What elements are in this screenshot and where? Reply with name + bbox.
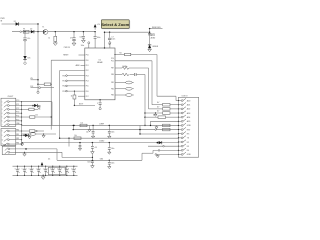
feed wire J2 row4 — [144, 112, 145, 113]
svg-text:PC1: PC1 — [111, 61, 114, 63]
resistor R1 drop — [55, 31, 56, 32]
svg-text:AD3: AD3 — [187, 112, 191, 115]
svg-text:1: 1 — [2, 101, 3, 103]
svg-text:C1: C1 — [36, 168, 38, 170]
capacitor C1 chain — [24, 31, 25, 32]
svg-text:1n: 1n — [68, 168, 70, 170]
svg-text:10: 10 — [2, 139, 4, 141]
svg-text:1n: 1n — [47, 168, 49, 170]
svg-text:PD0: PD0 — [62, 75, 65, 77]
ground below C2 — [72, 43, 76, 46]
terminal diamond GND1 — [24, 62, 27, 65]
LED5 row J1b second — [23, 135, 25, 137]
svg-text:1n: 1n — [61, 168, 63, 170]
connector J1 box lower — [1, 129, 16, 146]
connector J1 pin 2 — [4, 104, 8, 107]
open pin end of left vertical — [37, 91, 39, 93]
svg-text:1n: 1n — [32, 172, 34, 174]
ferrite on rail C — [30, 133, 36, 136]
svg-text:GND: GND — [187, 154, 192, 156]
svg-text:4k7: 4k7 — [157, 106, 159, 108]
ground below bottom pin row — [157, 154, 159, 155]
capacitor C23 decoupling — [38, 166, 39, 167]
svg-text:PC3: PC3 — [16, 112, 19, 114]
svg-text:PD6: PD6 — [86, 91, 89, 93]
svg-text:1n: 1n — [40, 168, 42, 170]
wire step down x62 — [61, 152, 63, 157]
connector J2 pin 11 — [178, 141, 181, 143]
svg-text:T1: T1 — [42, 27, 44, 29]
capacitor C21 decoupling — [24, 166, 25, 167]
svg-text:100n: 100n — [81, 45, 85, 47]
resistor rail B right — [163, 128, 171, 131]
svg-text:PC2: PC2 — [16, 108, 19, 110]
svg-text:PD3: PD3 — [62, 91, 65, 93]
wire led chain vertical — [149, 29, 151, 45]
wire long left vertical — [37, 32, 39, 91]
resistor R7 row — [22, 108, 29, 110]
connector J2 pin 7 — [178, 124, 181, 126]
connector J2 pin 4 — [178, 112, 181, 114]
capacitor C24 decoupling — [45, 166, 46, 167]
svg-text:1n: 1n — [75, 172, 77, 174]
connector J2 pin 2 — [178, 104, 181, 106]
svg-text:PD2: PD2 — [86, 70, 89, 72]
svg-text:10n: 10n — [86, 132, 89, 134]
connector J1b pin 1 — [4, 130, 8, 133]
capacitor C20 decoupling — [17, 166, 18, 167]
svg-text:10k: 10k — [81, 123, 84, 125]
resistor J2 row5 — [158, 116, 166, 119]
wire main 5V bus — [12, 31, 95, 33]
chain x92.4 below rail E — [92, 142, 93, 143]
svg-text:1n: 1n — [25, 172, 27, 174]
svg-text:1n: 1n — [54, 172, 56, 174]
svg-text:100n: 100n — [111, 132, 115, 134]
svg-text:D2: D2 — [187, 142, 189, 144]
svg-text:RESET: RESET — [63, 55, 68, 57]
svg-text:100n: 100n — [111, 39, 115, 41]
wire rail A from J1 — [22, 124, 179, 126]
svg-text:1n: 1n — [18, 168, 20, 170]
connector box3 pin 1 — [5, 148, 8, 151]
svg-text:PD3: PD3 — [86, 75, 89, 77]
svg-text:1k: 1k — [48, 38, 50, 40]
wire rail D — [60, 137, 179, 139]
connector box3 serial — [2, 146, 15, 154]
connector J2 pin 1 — [178, 100, 181, 102]
wire feed vertical x51.2 — [50, 60, 52, 129]
connector box3 pin 2 — [5, 151, 8, 154]
wire staircase to J2 — [141, 153, 143, 160]
resistor R4 — [115, 54, 125, 56]
svg-text:10k: 10k — [74, 135, 77, 137]
connector J1b pin 4 — [4, 143, 8, 146]
fuse F1 — [23, 30, 29, 33]
capacitor C9 inline — [134, 73, 136, 76]
pin row J2 bottom with circle — [155, 154, 157, 156]
wire feed vertical x157 — [156, 55, 158, 97]
svg-text:CN EXT: CN EXT — [8, 96, 14, 98]
svg-text:PB3: PB3 — [111, 95, 114, 97]
svg-text:RX: RX — [187, 134, 190, 136]
feed wire J2 row3 — [149, 108, 163, 110]
wire step down x57 — [56, 149, 58, 160]
ground stub rail A right — [156, 125, 158, 126]
capacitor C28 decoupling — [73, 166, 74, 167]
connector J1 box upper — [1, 98, 16, 126]
connector J2 pin 10 — [178, 137, 181, 139]
svg-text:10n: 10n — [80, 37, 83, 39]
svg-text:PC4: PC4 — [16, 116, 19, 118]
capacitor C3 drop — [83, 31, 84, 32]
svg-text:2: 2 — [2, 105, 3, 107]
svg-text:C1: C1 — [43, 168, 45, 170]
cap group2 box — [49, 167, 66, 175]
svg-text:10k: 10k — [35, 115, 38, 117]
svg-text:RESET-EN: RESET-EN — [152, 27, 161, 29]
LED1 green — [148, 45, 151, 48]
connector J2 pin 8 — [178, 129, 181, 131]
svg-text:CON IO: CON IO — [182, 95, 189, 97]
svg-text:D1: D1 — [14, 21, 16, 23]
wire row1 extension to corner — [22, 101, 53, 103]
svg-text:8: 8 — [2, 131, 3, 133]
wire rail G bottom — [57, 159, 142, 161]
svg-text:PC6: PC6 — [86, 55, 89, 57]
svg-text:100n: 100n — [111, 148, 115, 150]
svg-text:100n: 100n — [97, 37, 101, 39]
wire rail C stepped — [22, 133, 57, 135]
svg-text:Select & Zoom: Select & Zoom — [101, 22, 129, 27]
svg-text:X: X — [97, 103, 98, 105]
wire J2 row5 with resistor — [144, 116, 145, 117]
svg-text:7: 7 — [2, 124, 3, 126]
connector J2 pin 5 — [178, 116, 181, 118]
svg-text:AD2: AD2 — [187, 108, 191, 111]
svg-text:TX: TX — [187, 138, 190, 140]
svg-text:PD2: PD2 — [62, 86, 65, 88]
wire J2 row7 stub — [139, 125, 141, 134]
resistor row J1b first — [22, 130, 30, 132]
capacitor C22 decoupling — [31, 166, 32, 167]
capacitor C5 inline on AVCC drop — [94, 31, 95, 32]
wire branch to J2 row6 — [150, 121, 152, 125]
svg-text:D4: D4 — [187, 150, 189, 152]
svg-text:AD1: AD1 — [187, 104, 191, 107]
svg-text:C1: C1 — [29, 168, 31, 170]
svg-text:100n: 100n — [87, 161, 91, 163]
connector J1 pin 6 — [4, 120, 8, 123]
svg-text:A REF: A REF — [100, 122, 104, 125]
ground below R1 — [53, 43, 57, 46]
svg-text:1n: 1n — [18, 172, 20, 174]
wire row below U1 — [74, 104, 95, 106]
svg-text:3: 3 — [2, 109, 3, 111]
wire feed vertical x145 — [144, 75, 146, 126]
ground below LED1 — [149, 48, 151, 49]
svg-text:100n: 100n — [111, 163, 115, 165]
svg-text:PD5: PD5 — [86, 86, 89, 88]
svg-text:PB4: PB4 — [111, 88, 114, 90]
svg-text:1n: 1n — [75, 168, 77, 170]
power +5V arrow — [94, 27, 96, 29]
svg-text:PB3: PB3 — [16, 143, 19, 145]
IC U1 body — [85, 48, 115, 100]
resistor row B on left vertical — [37, 84, 38, 85]
wire AREF left drop — [104, 32, 106, 48]
ground below C3 — [82, 40, 86, 43]
resistor rail A right — [163, 124, 171, 127]
capacitor CA1 below rail A — [92, 125, 93, 126]
wire rail B — [73, 129, 178, 131]
ground stub mid rail A — [89, 125, 91, 129]
wire junction vertical — [37, 24, 39, 32]
node open pin on bus — [20, 31, 22, 33]
power pin circle above U1 right — [109, 42, 111, 44]
connector J2 pin 9 — [178, 133, 181, 135]
svg-text:PB0: PB0 — [16, 130, 19, 132]
svg-text:R4: R4 — [120, 53, 122, 55]
svg-text:BOOT: BOOT — [79, 104, 83, 106]
diode D2 — [31, 30, 34, 33]
svg-text:C1: C1 — [71, 168, 73, 170]
svg-text:D2: D2 — [30, 28, 32, 30]
capacitor C27 decoupling — [66, 166, 67, 167]
svg-text:GREEN: GREEN — [152, 46, 159, 48]
wire reset to right feed — [131, 54, 157, 56]
svg-text:PC1: PC1 — [16, 104, 19, 106]
ground stub J2 row4 — [155, 112, 156, 113]
svg-text:PD7: PD7 — [86, 96, 89, 98]
ground on rail C — [43, 134, 45, 135]
row RESET right of U1 — [114, 54, 115, 55]
LED2 row extension — [32, 105, 34, 107]
svg-text:1n: 1n — [25, 168, 27, 170]
svg-text:1n: 1n — [40, 172, 42, 174]
capacitor C8 — [148, 32, 151, 34]
svg-text:PD4: PD4 — [86, 81, 89, 83]
connector J1b pin 2 — [4, 134, 8, 137]
svg-text:AD4: AD4 — [187, 116, 191, 119]
wire AREF top horizontal — [105, 31, 150, 33]
connector J1 pin 1 — [4, 101, 8, 104]
wire feed vertical x148.5 — [148, 68, 150, 109]
svg-text:6: 6 — [2, 120, 3, 122]
svg-text:9: 9 — [2, 135, 3, 137]
svg-text:1n: 1n — [47, 172, 49, 174]
connector J2 pin 13 — [178, 149, 181, 151]
svg-text:4k7: 4k7 — [157, 102, 159, 104]
svg-text:4k7: 4k7 — [157, 111, 159, 113]
capacitor CE2 below rail E — [109, 142, 110, 143]
capacitor C26 decoupling — [59, 166, 60, 167]
pin row bottom left of U1 — [78, 95, 85, 97]
ground after LED2 — [38, 106, 40, 107]
decoupling cap rail bottom — [13, 174, 78, 176]
resistor mid rail A — [73, 125, 74, 126]
svg-text:PB6: PB6 — [111, 74, 114, 76]
svg-text:C1: C1 — [57, 168, 59, 170]
svg-text:GND: GND — [187, 125, 192, 127]
svg-text:PB1: PB1 — [16, 134, 19, 136]
svg-text:PC5: PC5 — [16, 119, 19, 121]
svg-text:IC1: IC1 — [99, 59, 102, 61]
LED4 on rail E right — [157, 142, 159, 144]
connector J1 pin 5 — [4, 116, 8, 119]
connector J1b pin 3 — [4, 139, 8, 142]
connector J2 pin 3 — [178, 108, 181, 110]
svg-text:D3: D3 — [187, 146, 189, 148]
svg-text:1n: 1n — [32, 168, 34, 170]
connector J2 pin 6 — [178, 120, 181, 122]
svg-text:5: 5 — [2, 117, 3, 119]
resistor J2 row4 — [163, 112, 171, 115]
svg-text:PB5: PB5 — [111, 82, 114, 84]
svg-text:10n: 10n — [48, 159, 51, 161]
resistor R3 vertical near U1 — [73, 91, 75, 95]
wire VIN top — [2, 23, 39, 25]
svg-text:C1: C1 — [22, 168, 24, 170]
svg-text:PC0: PC0 — [111, 58, 114, 60]
svg-text:A GND: A GND — [100, 140, 106, 143]
wire rail E — [22, 142, 179, 144]
wire reset-en horizontal — [150, 28, 163, 30]
svg-text:RST: RST — [187, 129, 191, 131]
connector J2 pin 14 — [178, 153, 181, 155]
resistor J2 row2 — [163, 104, 171, 107]
diode D3 zener — [23, 56, 26, 59]
capacitor CE0 below rail E — [79, 142, 80, 143]
svg-text:PD1: PD1 — [86, 65, 89, 67]
ground stub x24.5 — [24, 152, 25, 153]
svg-text:1n: 1n — [68, 172, 70, 174]
svg-text:PC0: PC0 — [16, 100, 19, 102]
connector J1 pin 3 — [4, 108, 8, 111]
diode D1 — [16, 22, 19, 25]
capacitor C7 — [109, 32, 110, 33]
svg-text:1k: 1k — [71, 95, 73, 97]
feed wire J2 row2 — [152, 104, 163, 106]
connector J2 pin 12 — [178, 145, 181, 147]
svg-text:F1: F1 — [23, 29, 25, 31]
wire row feed1 into U1 — [51, 59, 85, 61]
svg-text:47u: 47u — [70, 38, 73, 40]
chain below U1 bottom — [99, 99, 100, 100]
transistor T1 — [43, 30, 48, 35]
capacitor CG below rail G — [109, 160, 110, 161]
connector J1 pin 7 — [4, 124, 8, 127]
connector J1 pin 4 — [4, 112, 8, 115]
svg-text:AREF: AREF — [76, 64, 80, 67]
wire box3 row1 — [15, 148, 57, 150]
capacitor CA2 below rail A — [109, 125, 110, 126]
svg-text:TX: TX — [39, 109, 41, 111]
feed wire J2 row1 — [176, 100, 178, 102]
power +5V arrow bottom — [41, 162, 44, 165]
svg-text:+5V: +5V — [97, 24, 101, 26]
row AREF stub into U1 — [81, 64, 85, 66]
svg-text:PB7: PB7 — [111, 68, 114, 70]
tooltip Select and Zoom — [102, 21, 130, 30]
svg-text:+5V: +5V — [94, 147, 97, 149]
wire corner drop x52 — [51, 102, 53, 126]
svg-text:PD1: PD1 — [62, 81, 65, 83]
capacitor C25 decoupling — [52, 166, 53, 167]
svg-text:AD5: AD5 — [187, 120, 191, 123]
connector J2 box — [178, 97, 198, 157]
decoupling cap rail top — [13, 165, 78, 167]
wire feed vertical x59.6 — [59, 71, 61, 139]
resistor J2 row3 — [163, 108, 171, 111]
wire feed vertical x152 — [151, 61, 153, 105]
wire J2 row9 segment — [140, 133, 178, 135]
svg-text:PB2: PB2 — [16, 138, 19, 140]
svg-text:4: 4 — [2, 113, 3, 115]
svg-text:C1: C1 — [50, 168, 52, 170]
ground after LED5 — [29, 135, 31, 136]
svg-text:5V1: 5V1 — [27, 57, 30, 59]
svg-text:AD0: AD0 — [187, 99, 191, 102]
wire box3 row2 — [15, 151, 62, 153]
svg-text:1n: 1n — [61, 172, 63, 174]
svg-text:PD0: PD0 — [86, 60, 89, 62]
svg-text:IN: IN — [0, 20, 2, 22]
pin circle rail B right — [155, 129, 157, 131]
power pin circle above U1 left — [88, 42, 90, 44]
svg-text:47u: 47u — [27, 38, 30, 40]
wire J2 row12 short — [148, 145, 178, 147]
ground stub below rail E left — [22, 142, 23, 143]
capacitor C2 drop polarized — [73, 31, 74, 32]
wire drop from rail D — [68, 138, 70, 146]
svg-text:PWR 5V: PWR 5V — [64, 47, 71, 49]
wire row feed2 into U1 — [60, 70, 85, 72]
resistor on rail D — [74, 137, 81, 140]
svg-text:C1: C1 — [15, 168, 17, 170]
ground below cap rail — [43, 175, 44, 176]
svg-text:1n: 1n — [54, 168, 56, 170]
wire J1 bus vertical — [21, 102, 23, 144]
resistor R8 row — [22, 116, 30, 118]
